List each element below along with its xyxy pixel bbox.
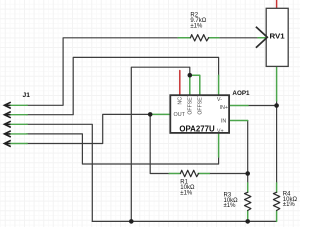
resistor R1 zigzag	[180, 170, 198, 176]
op-amp U1 pin leg OFFSET jumper and legs	[190, 75, 200, 95]
potentiometer RV1 body	[266, 8, 288, 66]
connector J1 pin 5 arrowhead	[4, 140, 10, 146]
connector J1 pin 2 arrowhead	[4, 112, 10, 118]
svg-text:IN+: IN+	[220, 105, 229, 111]
resistor R4 legs	[276, 183, 278, 222]
svg-text:NC: NC	[177, 97, 183, 105]
svg-text:OUT: OUT	[173, 112, 185, 118]
wire net5 arrow5 to OUT node	[27, 114, 151, 143]
wire ground bus	[92, 220, 276, 222]
svg-text:±1%: ±1%	[283, 202, 296, 208]
wire RV1 bottom to R4 top	[276, 101, 278, 183]
wire net2 arrow2 to V- pin	[27, 57, 219, 114]
op-amp U1 pin leg IN	[229, 120, 248, 122]
connector J1 pin 4 arrowhead	[4, 131, 10, 137]
op-amp U1 pin leg V+ bottom	[218, 133, 220, 157]
op-amp U1 pin leg IN+	[229, 105, 248, 107]
op-amp U1 pin leg V- top	[218, 75, 220, 95]
pin leg arrow5	[9, 142, 27, 144]
svg-text:±1%: ±1%	[190, 23, 203, 29]
svg-text:OFFSET: OFFSET	[198, 93, 204, 114]
resistor R3 legs	[247, 183, 249, 222]
wire IN+ to RV1 bottom column	[248, 105, 277, 107]
resistor R1 legs	[169, 173, 209, 175]
connector J1 pin 3 arrowhead	[4, 121, 10, 127]
junction node OFFSET	[188, 73, 193, 78]
pin leg arrow3	[9, 123, 27, 125]
svg-text:J1: J1	[23, 92, 31, 99]
wire offset net: bus to OFFSET pins	[131, 67, 190, 221]
pin leg arrow2	[9, 114, 27, 116]
junction node OUT	[148, 112, 153, 117]
pin leg arrow1	[10, 104, 28, 106]
op-amp U1 pin leg OUT	[150, 113, 170, 115]
svg-text:IN: IN	[221, 119, 226, 125]
svg-text:V+: V+	[217, 128, 224, 134]
potentiometer RV1 wiper arrow	[256, 27, 267, 48]
op-amp U1 pin leg NC (red, unconnected)	[179, 71, 181, 96]
svg-text:AOP1: AOP1	[232, 90, 250, 97]
svg-text:RV1: RV1	[270, 34, 285, 41]
potentiometer RV1 bottom pin leg	[276, 66, 278, 101]
resistor R2 zigzag	[190, 35, 208, 41]
wire IN pin down to feedback node	[247, 121, 249, 183]
junction node IN+/RV1	[274, 103, 279, 108]
pin leg arrow4	[9, 133, 27, 135]
resistor R3 zigzag	[244, 192, 250, 210]
wire net3 arrow3 to ground bus	[27, 124, 93, 221]
junction node R3 bottom bus	[245, 219, 250, 224]
svg-text:±1%: ±1%	[223, 203, 236, 209]
svg-text:OPA277U: OPA277U	[179, 125, 215, 134]
wire R1 right to node	[209, 173, 247, 175]
junction node feedback (R1/R3/IN)	[245, 171, 250, 176]
potentiometer RV1 top pin (red, unconnected)	[276, 0, 278, 8]
svg-text:V-: V-	[217, 97, 222, 103]
wire OUT node down to R1 left	[150, 114, 169, 173]
resistor R2 legs	[178, 37, 219, 39]
wire R2 to RV1 wiper	[219, 37, 258, 39]
resistor R4 zigzag	[273, 192, 279, 210]
svg-text:OFFSET: OFFSET	[188, 93, 194, 114]
wire net4 arrow4 to V+ rail	[27, 134, 219, 164]
connector J1 pin 1 arrowhead	[4, 102, 10, 108]
op-amp U1 body	[170, 95, 229, 133]
wire net1 arrow1 to R2	[27, 38, 179, 106]
potentiometer RV1 wiper leg	[258, 37, 267, 39]
junction node offset bus	[129, 219, 134, 224]
svg-text:±1%: ±1%	[180, 190, 193, 196]
